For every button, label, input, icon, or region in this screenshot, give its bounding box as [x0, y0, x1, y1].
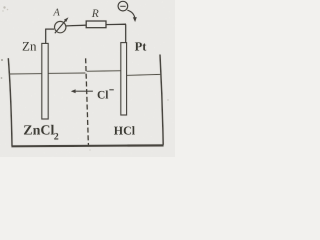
ammeter A	[52, 8, 68, 34]
porous partition (dashed)	[86, 57, 89, 145]
beaker right wall	[160, 55, 163, 145]
electrode Pt	[121, 43, 127, 115]
resistor R	[86, 8, 106, 28]
electrode Zn	[42, 43, 48, 119]
label ZnCl2	[23, 124, 59, 143]
liquid level line	[9, 71, 161, 76]
wire (ammeter to resistor)	[66, 24, 86, 27]
wire (resistor to Pt electrode)	[106, 24, 126, 42]
curved arrow (electron flow)	[127, 10, 136, 22]
negative terminal symbol	[118, 1, 128, 11]
Cl- migration arrow	[71, 89, 93, 93]
beaker bottom	[11, 144, 163, 147]
wire left (Zn electrode to ammeter)	[45, 29, 54, 43]
beaker left wall	[8, 58, 12, 146]
label Cl-	[97, 89, 114, 101]
